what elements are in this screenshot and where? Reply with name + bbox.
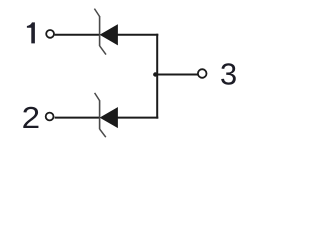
wire junction to pin 3 — [154, 74, 199, 76]
terminal circle pin 3 — [198, 69, 207, 78]
wire pin2 to D2 cathode — [55, 117, 100, 119]
junction node at vertical bus — [153, 72, 157, 76]
wire right vertical bus — [156, 34, 158, 119]
wire pin1 to D1 cathode — [55, 34, 100, 36]
zener diode D2 (bottom) — [95, 93, 118, 137]
terminal circle pin 1 — [46, 30, 54, 38]
terminal circle pin 2 — [46, 113, 54, 121]
svg-text:3: 3 — [220, 57, 237, 92]
pin label 2 — [22, 100, 41, 135]
zener diode D1 (top) — [94, 9, 117, 55]
wire D1 anode to right vertical — [117, 34, 158, 36]
wire D2 anode to right vertical — [117, 117, 158, 119]
pin label 1 — [27, 22, 35, 43]
svg-text:2: 2 — [22, 100, 41, 135]
pin label 3 — [220, 57, 237, 92]
